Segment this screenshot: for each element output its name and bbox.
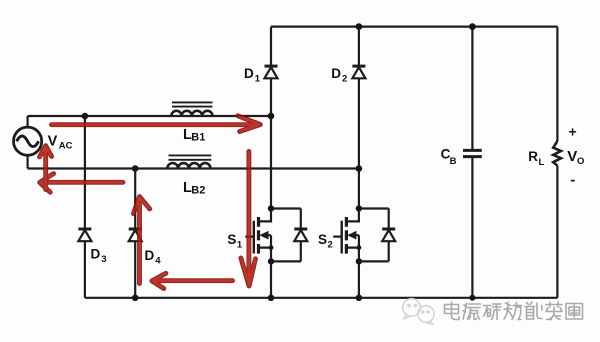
svg-text:3: 3 xyxy=(101,254,106,265)
svg-text:O: O xyxy=(577,156,584,167)
junction S1 source lead xyxy=(269,245,274,250)
svg-text:V: V xyxy=(567,148,577,165)
svg-text:V: V xyxy=(48,133,58,149)
label VAC xyxy=(48,133,73,151)
svg-text:D: D xyxy=(331,66,341,81)
label D1 xyxy=(244,66,261,84)
wire right branch RL lower xyxy=(556,166,558,298)
inductor LB2 xyxy=(167,155,211,168)
junction CB bottom rail xyxy=(469,295,475,301)
junction LB1 to D1 S1 branch xyxy=(268,113,275,120)
svg-text:4: 4 xyxy=(155,255,161,266)
svg-text:L: L xyxy=(539,157,545,168)
svg-text:B2: B2 xyxy=(191,185,205,197)
junction LB2 to D2 S2 branch xyxy=(356,165,363,172)
junction CB top rail xyxy=(469,23,476,30)
capacitor CB plates xyxy=(463,150,482,156)
transistor S1 (MOSFET) xyxy=(245,209,271,262)
label LB1 xyxy=(183,127,205,144)
wire AC bottom to LB2 xyxy=(28,155,359,169)
svg-text:B1: B1 xyxy=(191,132,205,144)
junction D4 top on AC bottom wire xyxy=(132,165,139,172)
diode D1 xyxy=(265,66,278,78)
junction S2 drain node xyxy=(356,205,362,211)
ac source VAC xyxy=(14,127,42,155)
svg-text:AC: AC xyxy=(59,140,73,151)
junction D2 top rail xyxy=(356,23,363,30)
label LB2 xyxy=(183,180,205,197)
resistor RL zigzag xyxy=(553,141,561,166)
red current arrow A1 along LB1 xyxy=(52,116,261,132)
svg-text:D: D xyxy=(244,66,254,81)
svg-text:-: - xyxy=(570,172,575,189)
svg-text:D: D xyxy=(145,248,155,263)
diode D3 xyxy=(78,229,91,241)
svg-text:R: R xyxy=(528,149,538,164)
svg-text:1: 1 xyxy=(237,239,243,250)
wire D1 S1 vertical xyxy=(270,27,272,298)
red current arrow A4 up through D4 xyxy=(133,197,149,284)
diode D2 xyxy=(352,66,365,78)
red current arrow A3 bottom leftward xyxy=(152,273,233,288)
junction S1 bottom rail xyxy=(268,295,275,302)
svg-text:2: 2 xyxy=(328,239,333,250)
label D3 xyxy=(91,247,107,265)
watermark logo xyxy=(403,299,434,324)
junction S1 drain node xyxy=(268,205,274,211)
body diode of S2 xyxy=(359,209,395,262)
label S2 xyxy=(318,232,333,251)
junction S1 source node xyxy=(268,258,274,264)
svg-text:S: S xyxy=(318,232,327,247)
label RL xyxy=(528,149,544,168)
label D2 xyxy=(331,66,347,84)
diode D4 xyxy=(129,229,142,241)
red current arrow A5 leftward to VAC xyxy=(40,174,123,193)
label D4 xyxy=(145,248,162,266)
junction D4 bottom rail xyxy=(132,295,139,302)
label S1 xyxy=(227,232,243,251)
wire D3 branch xyxy=(84,116,86,298)
wire right branch RL upper xyxy=(556,27,558,141)
red current arrow A6 up into VAC xyxy=(40,146,52,190)
svg-text:B: B xyxy=(450,156,457,167)
label VO xyxy=(567,148,584,167)
wire D2 S2 vertical xyxy=(358,27,360,298)
label CB xyxy=(441,147,457,167)
svg-text:2: 2 xyxy=(342,73,347,84)
red current arrow A2 down through S1 xyxy=(241,152,256,287)
wire CB branch upper xyxy=(471,27,473,150)
junction S2 source node xyxy=(356,258,362,264)
body diode of S1 xyxy=(271,209,307,262)
junction D3 top on AC top wire xyxy=(82,113,89,120)
junction S2 source lead xyxy=(357,245,362,250)
svg-text:+: + xyxy=(569,124,577,140)
wire AC top to LB1 xyxy=(28,116,271,127)
watermark text placeholder strokes xyxy=(445,302,583,320)
junction S2 bottom rail xyxy=(356,295,363,302)
wire bottom rail xyxy=(85,297,558,299)
wire CB branch lower xyxy=(471,157,473,298)
svg-text:1: 1 xyxy=(255,73,261,84)
wire D4 branch xyxy=(134,169,136,298)
inductor LB1 xyxy=(171,102,212,116)
wire top rail xyxy=(271,26,557,28)
transistor S2 (MOSFET) xyxy=(333,209,359,262)
svg-text:D: D xyxy=(91,247,101,262)
svg-text:S: S xyxy=(227,232,236,247)
